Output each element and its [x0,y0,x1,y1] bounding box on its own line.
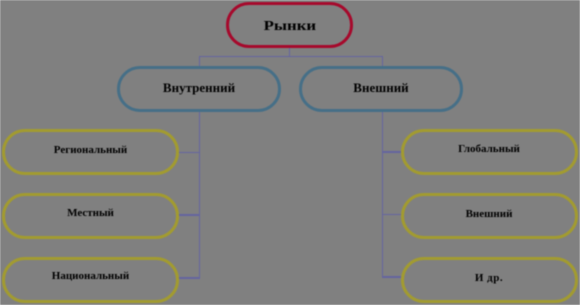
wire: branch to И др. [382,276,401,278]
wire: branch to Региональный [178,152,199,154]
wire: drop to Внутренний [199,56,201,68]
node Региональный [2,129,179,175]
wire: right trunk [382,110,384,278]
node Рынки (root) [226,2,353,48]
wire: stub below root [289,47,291,57]
node Национальный [2,257,179,303]
node Внутренний [117,66,281,112]
wire: branch to Глобальный [382,151,401,153]
node Внешний (level 3) [401,193,578,240]
wire: branch to Местный [178,214,199,216]
node Глобальный [401,129,578,175]
wire: branch to Внешний (level 3) [382,214,401,216]
wire: left trunk [199,110,201,279]
node И др. [401,257,578,303]
wire: drop to Внешний [382,56,384,68]
node Местный [2,193,179,240]
node Внешний (level 2) [299,66,463,112]
wire: horizontal bar between level 1 and level 2 [199,56,384,58]
wire: branch to Национальный [178,277,199,279]
